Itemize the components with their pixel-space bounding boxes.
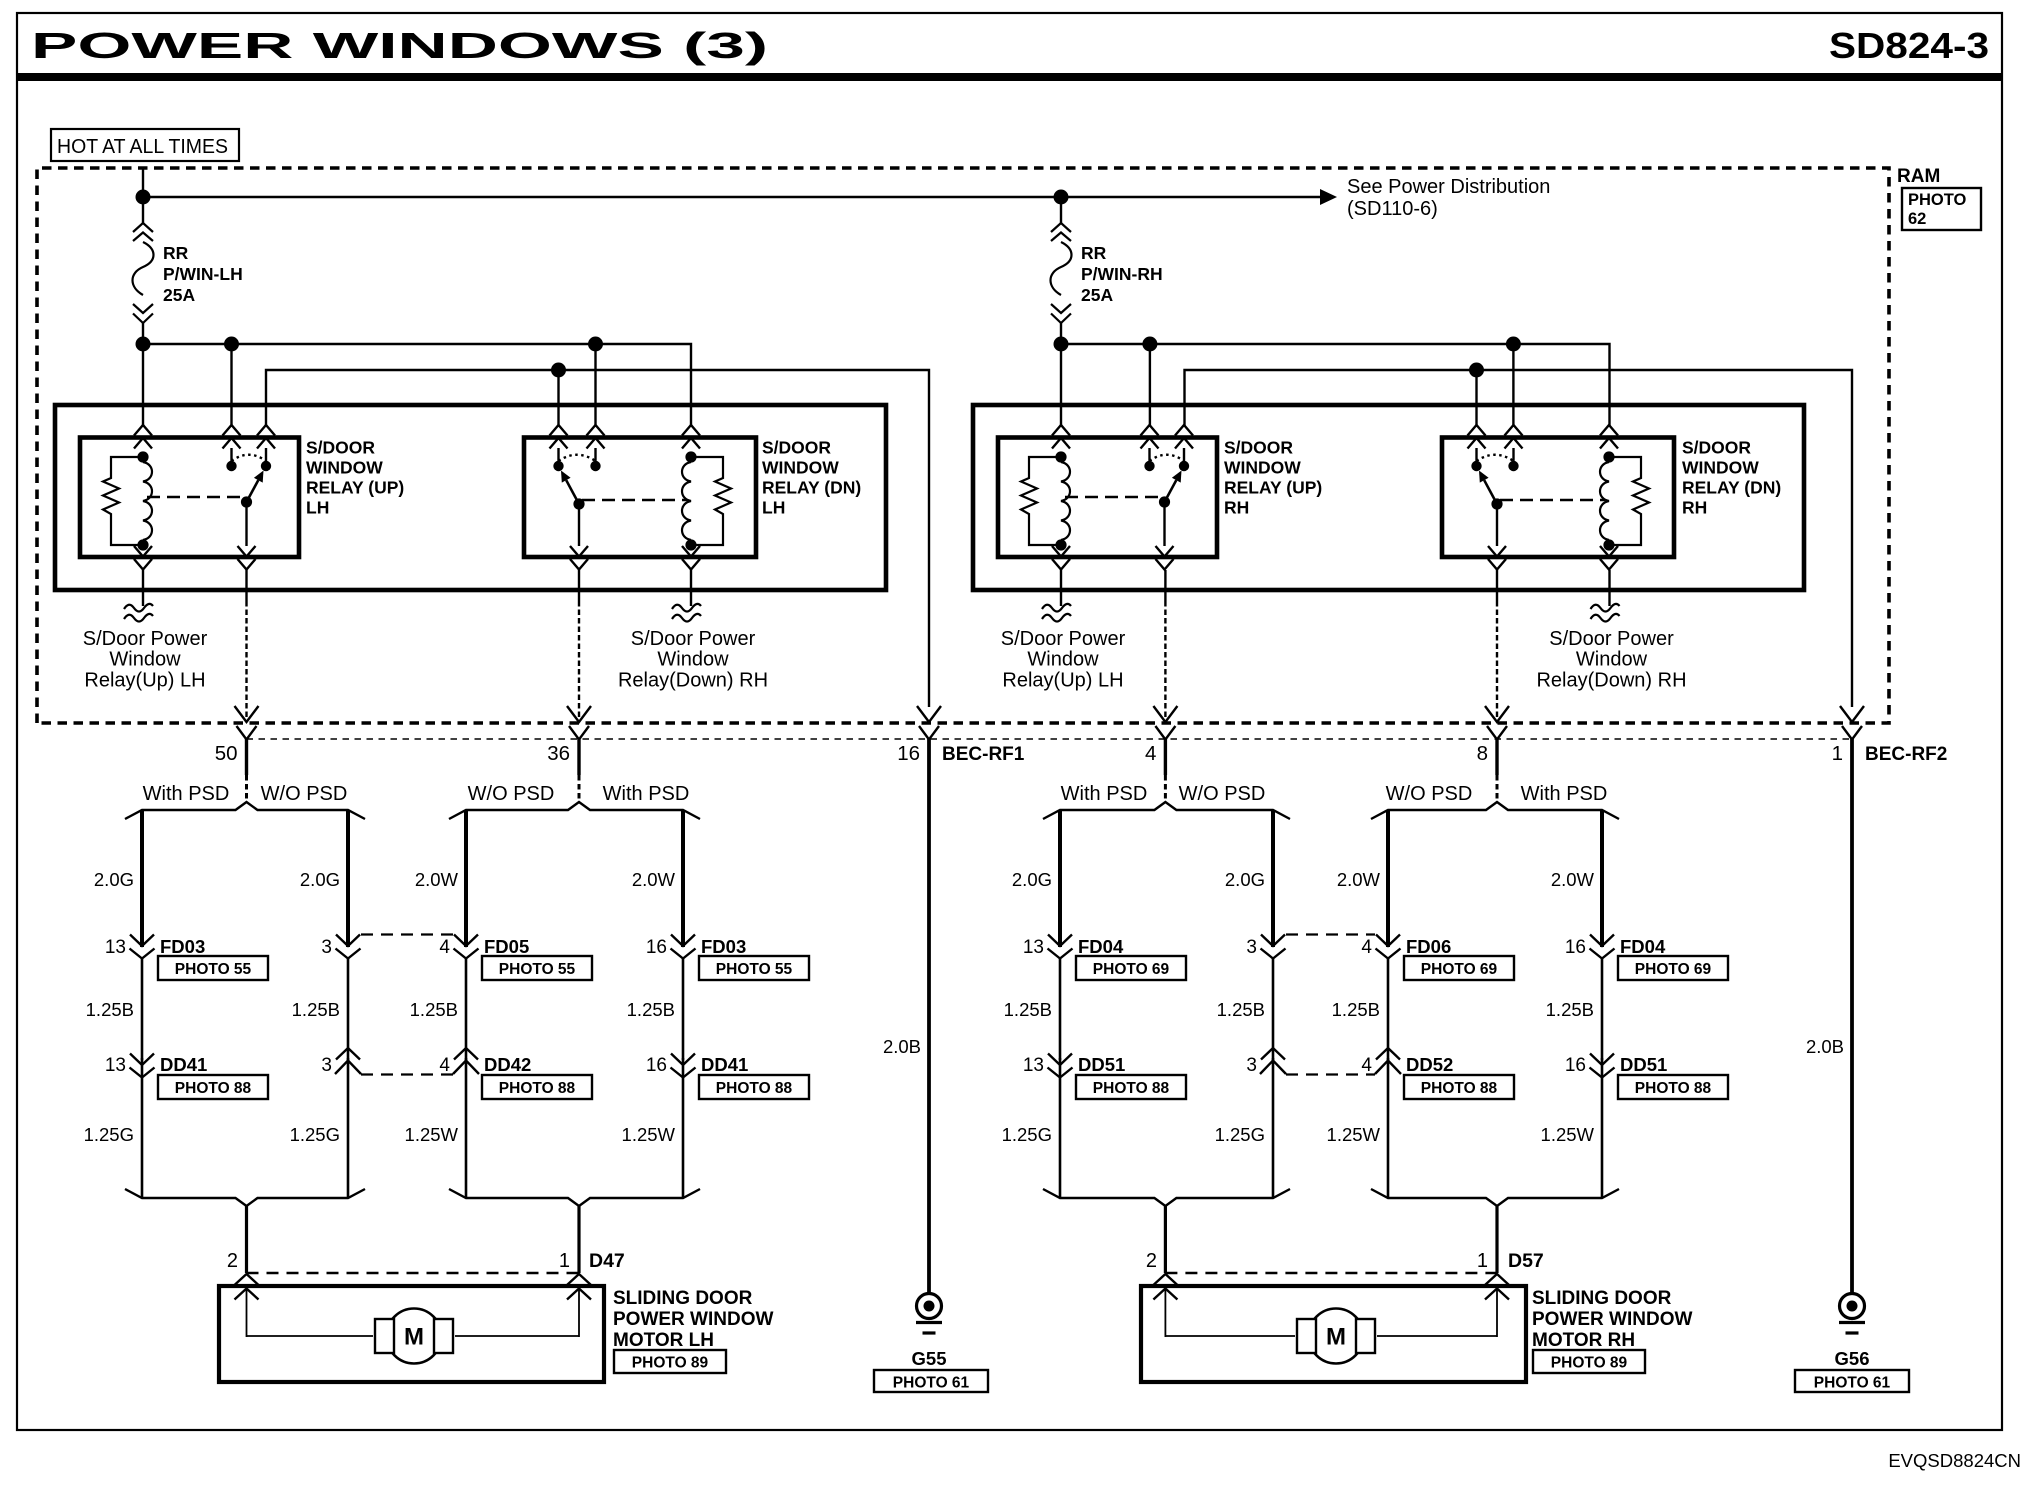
label box PHOTO 88 <box>1404 1075 1514 1099</box>
wire relay output to BEC x=246.5 <box>245 570 247 601</box>
svg-text:1.25B: 1.25B <box>410 999 458 1020</box>
connector BEC pin 8 <box>1485 706 1509 722</box>
label box PHOTO 55 <box>699 956 809 980</box>
wire stub contact 2 <box>265 448 267 462</box>
relay pin (contact 2) top <box>1175 425 1193 436</box>
motor box outline (RH) <box>1141 1286 1526 1382</box>
svg-text:62: 62 <box>1908 210 1926 228</box>
svg-text:1.25B: 1.25B <box>292 999 340 1020</box>
junction node LH lower bus <box>551 363 566 378</box>
relay pin (coil +) top <box>1600 425 1618 436</box>
switch pivot node <box>1159 496 1170 507</box>
wire branch x=348 middle (1.25B) <box>347 958 350 1060</box>
contact travel arc <box>1150 455 1185 461</box>
svg-text:Window: Window <box>109 649 181 671</box>
svg-text:3: 3 <box>321 1055 332 1076</box>
svg-text:2.0W: 2.0W <box>632 869 676 890</box>
svg-text:POWER WINDOW: POWER WINDOW <box>1532 1309 1692 1330</box>
connector BEC pin 4 <box>1153 706 1177 722</box>
svg-text:BEC-RF2: BEC-RF2 <box>1865 744 1947 765</box>
dashed link row2 <box>1286 1073 1375 1075</box>
wire option stem below BEC x=579 <box>577 739 580 775</box>
svg-text:HOT AT ALL TIMES: HOT AT ALL TIMES <box>57 136 228 158</box>
relay pin (coil +) top <box>1052 425 1070 436</box>
wire BEC-RF2 ground lead 2.0B <box>1850 739 1854 1295</box>
svg-text:RELAY (DN): RELAY (DN) <box>1682 478 1781 498</box>
relay pin (coil -) bottom <box>1600 546 1618 557</box>
wire battery feed into RAM box <box>142 168 144 199</box>
svg-text:D47: D47 <box>589 1250 625 1272</box>
svg-text:2: 2 <box>227 1250 238 1272</box>
wire RH UP coil drop <box>1060 344 1062 427</box>
svg-text:3: 3 <box>321 937 332 958</box>
svg-text:PHOTO 55: PHOTO 55 <box>716 961 793 978</box>
svg-text:13: 13 <box>105 1055 126 1076</box>
relay pin (coil +) top <box>682 425 700 436</box>
motor M circle (RH) <box>1309 1309 1364 1364</box>
svg-text:W/O PSD: W/O PSD <box>1179 783 1266 805</box>
motor pin 1 (RH) <box>1485 1274 1509 1285</box>
wire branch x=466 upper (2.0W) <box>464 810 468 947</box>
wire motor stem x=579 <box>577 1206 580 1273</box>
svg-text:S/DOOR: S/DOOR <box>1224 438 1293 458</box>
mechanical link (dashed) <box>1500 499 1605 501</box>
wire branch x=142 upper (2.0G) <box>140 810 144 947</box>
svg-text:4: 4 <box>1145 742 1156 765</box>
connector row1 pin 3 <box>336 935 360 947</box>
relay pin (contact 2) top <box>587 425 605 436</box>
harness join at x=246.5 <box>125 1189 365 1206</box>
svg-text:WINDOW: WINDOW <box>306 458 383 478</box>
wire branch x=1602 middle (1.25B) <box>1601 958 1604 1060</box>
relay coil <box>685 451 696 462</box>
wire stub contact 1 <box>1475 448 1477 462</box>
svg-text:PHOTO 89: PHOTO 89 <box>1551 1355 1628 1372</box>
relay pin (coil -) bottom <box>682 546 700 557</box>
relay box outline <box>1442 438 1674 558</box>
junction node RH lower bus <box>1469 363 1484 378</box>
motor pin 2 (RH) <box>1153 1274 1177 1285</box>
label box PHOTO 88 <box>699 1075 809 1099</box>
arrow to power distribution <box>1320 189 1337 205</box>
connector row2 pin 3 <box>347 1058 350 1198</box>
ground G56 symbol <box>1840 1294 1865 1319</box>
svg-text:PHOTO 69: PHOTO 69 <box>1421 961 1498 978</box>
svg-text:1.25G: 1.25G <box>1215 1124 1265 1145</box>
mechanical link (dashed) <box>147 496 244 498</box>
wire branch x=1388 upper (2.0W) <box>1386 810 1390 947</box>
wire branch x=1602 upper (2.0W) <box>1600 810 1604 947</box>
svg-text:16: 16 <box>646 1055 667 1076</box>
svg-text:1.25B: 1.25B <box>1004 999 1052 1020</box>
svg-text:2.0B: 2.0B <box>1806 1036 1844 1057</box>
wire coil output x=691 <box>690 570 692 606</box>
svg-text:M: M <box>404 1324 424 1351</box>
svg-text:(SD110-6): (SD110-6) <box>1347 198 1438 220</box>
svg-text:2.0G: 2.0G <box>1012 869 1052 890</box>
relay pin (contact 2) top <box>257 425 275 436</box>
wire bus RH lower (y=370) to BEC-RF2 <box>1185 370 1853 707</box>
svg-text:16: 16 <box>646 937 667 958</box>
wire branch x=683 middle (1.25B) <box>682 958 685 1060</box>
svg-text:FD04: FD04 <box>1620 936 1666 957</box>
relay coil <box>137 451 148 462</box>
wire stub contact 2 <box>1512 448 1514 462</box>
harness join at x=1497 <box>1371 1189 1619 1206</box>
junction node at fuse LH top <box>136 190 151 205</box>
wire RH DN contact2 drop <box>1512 344 1514 427</box>
wire RH DN contact1 drop <box>1475 370 1477 427</box>
svg-text:3: 3 <box>1246 937 1257 958</box>
contact node 1 <box>553 461 563 471</box>
switch pivot node <box>573 498 584 509</box>
contact node 1 <box>226 461 236 471</box>
motor pin 2 (LH) <box>235 1274 259 1285</box>
wire power bus to see-power-distribution <box>143 196 1322 198</box>
dashed link row1 <box>1286 933 1375 935</box>
svg-text:1.25B: 1.25B <box>1546 999 1594 1020</box>
svg-text:1.25W: 1.25W <box>1541 1124 1595 1145</box>
motor brushes (RH) <box>1297 1319 1316 1353</box>
wire stub contact 1 <box>557 448 559 462</box>
harness join at x=1165.4 <box>1043 1189 1290 1206</box>
contact node 2 <box>1179 461 1189 471</box>
svg-text:With PSD: With PSD <box>1521 783 1608 805</box>
relay box outline <box>80 438 299 558</box>
svg-text:1.25W: 1.25W <box>405 1124 459 1145</box>
svg-text:DD51: DD51 <box>1078 1054 1125 1075</box>
label box PHOTO 69 <box>1618 956 1728 980</box>
svg-text:MOTOR LH: MOTOR LH <box>613 1330 714 1351</box>
wire pivot to bottom pin <box>1163 502 1165 546</box>
wire motor stem x=246.5 <box>245 1206 248 1273</box>
switch blade <box>566 480 579 504</box>
svg-text:RELAY (UP): RELAY (UP) <box>306 478 404 498</box>
svg-text:13: 13 <box>1023 937 1044 958</box>
svg-text:SLIDING DOOR: SLIDING DOOR <box>613 1288 753 1309</box>
wire pivot to bottom pin <box>578 504 580 546</box>
wire branch x=1060 middle (1.25B) <box>1059 958 1062 1060</box>
svg-text:PHOTO 69: PHOTO 69 <box>1093 961 1170 978</box>
svg-text:G56: G56 <box>1835 1348 1870 1369</box>
wire branch x=348 upper (2.0G) <box>346 810 350 947</box>
wire coil output x=1061 <box>1060 570 1062 606</box>
relay resistor (parallel) <box>1021 457 1061 545</box>
svg-text:FD04: FD04 <box>1078 936 1124 957</box>
wire stub contact 1 <box>230 448 232 462</box>
svg-text:2.0B: 2.0B <box>883 1036 921 1057</box>
svg-text:Relay(Up) LH: Relay(Up) LH <box>84 669 205 691</box>
relay assembly outer box LH <box>55 405 886 590</box>
svg-text:DD41: DD41 <box>160 1054 207 1075</box>
label box PHOTO 88 <box>482 1075 592 1099</box>
relay pin (contact 1) top <box>1141 425 1159 436</box>
relay pin (contact 1) top <box>1468 425 1486 436</box>
svg-text:1: 1 <box>1477 1250 1488 1272</box>
svg-text:S/DOOR: S/DOOR <box>762 438 831 458</box>
svg-text:16: 16 <box>1565 937 1586 958</box>
svg-text:1.25B: 1.25B <box>1332 999 1380 1020</box>
motor M circle (LH) <box>387 1309 442 1364</box>
contact travel arc <box>559 455 596 461</box>
wire option stem below BEC x=246.5 <box>245 739 248 775</box>
svg-text:13: 13 <box>1023 1055 1044 1076</box>
svg-text:1.25W: 1.25W <box>1327 1124 1381 1145</box>
connector row2 pin 4 DD52 <box>1387 1058 1390 1198</box>
contact node 1 <box>1471 461 1481 471</box>
svg-text:1: 1 <box>559 1250 570 1272</box>
wire coil output x=143 <box>142 570 144 606</box>
svg-text:1.25W: 1.25W <box>622 1124 676 1145</box>
wire option stem below BEC x=1497 <box>1495 739 1498 775</box>
motor RH PHOTO 89 box <box>1533 1350 1645 1373</box>
switch pivot node <box>241 496 252 507</box>
wire stub contact 2 <box>594 448 596 462</box>
svg-text:P/WIN-LH: P/WIN-LH <box>163 264 243 284</box>
svg-text:With PSD: With PSD <box>603 783 690 805</box>
wire LH DN contact2 drop <box>594 344 596 427</box>
svg-text:16: 16 <box>1565 1055 1586 1076</box>
svg-text:1.25B: 1.25B <box>86 999 134 1020</box>
junction node RH bus at DN contact <box>1506 337 1521 352</box>
svg-text:Window: Window <box>657 649 729 671</box>
wire pivot to bottom pin <box>245 502 247 546</box>
svg-text:RR: RR <box>1081 243 1107 263</box>
svg-text:DD41: DD41 <box>701 1054 748 1075</box>
svg-text:1.25B: 1.25B <box>627 999 675 1020</box>
dashed link row2 <box>361 1073 453 1075</box>
label box PHOTO 69 <box>1076 956 1186 980</box>
svg-text:FD03: FD03 <box>701 936 746 957</box>
label box PHOTO 69 <box>1404 956 1514 980</box>
contact node 2 <box>261 461 271 471</box>
svg-text:50: 50 <box>215 742 238 765</box>
relay pin (coil -) bottom <box>1052 546 1070 557</box>
wire pivot to bottom pin <box>1496 504 1498 546</box>
svg-text:3: 3 <box>1246 1055 1257 1076</box>
harness split at x=1165.4 <box>1043 802 1290 819</box>
svg-text:POWER WINDOW: POWER WINDOW <box>613 1309 773 1330</box>
svg-text:25A: 25A <box>163 285 195 305</box>
svg-text:D57: D57 <box>1508 1250 1544 1272</box>
connector BEC pin 16 BEC-RF1 <box>917 706 941 722</box>
motor internal wires (RH) <box>1164 1288 1166 1337</box>
svg-text:PHOTO 88: PHOTO 88 <box>1093 1080 1170 1097</box>
svg-text:RR: RR <box>163 243 189 263</box>
fuse RR P/WIN-RH 25A <box>1060 197 1062 224</box>
svg-text:Relay(Down) RH: Relay(Down) RH <box>618 669 768 691</box>
svg-text:1: 1 <box>1832 742 1843 765</box>
svg-text:POWER WINDOWS (3): POWER WINDOWS (3) <box>31 25 768 66</box>
svg-text:RH: RH <box>1682 498 1707 518</box>
wire continuation symbol x=1061 <box>1042 604 1071 612</box>
svg-text:SLIDING DOOR: SLIDING DOOR <box>1532 1288 1672 1309</box>
relay coil <box>1055 451 1066 462</box>
connector BEC pin 50 <box>235 706 259 722</box>
relay box outline <box>524 438 756 558</box>
wire stub contact 1 <box>1148 448 1150 462</box>
svg-text:4: 4 <box>1361 937 1372 958</box>
svg-text:1.25G: 1.25G <box>1002 1124 1052 1145</box>
motor pin 1 (LH) <box>567 1274 591 1285</box>
junction node LH bus at DN contact <box>588 337 603 352</box>
svg-text:BEC-RF1: BEC-RF1 <box>942 744 1025 765</box>
relay pin (coil -) bottom <box>134 546 152 557</box>
svg-text:2.0W: 2.0W <box>1337 869 1381 890</box>
svg-text:PHOTO 89: PHOTO 89 <box>632 1355 709 1372</box>
motor internal wires (LH) <box>246 1288 248 1337</box>
relay pin (contact 1) top <box>550 425 568 436</box>
svg-text:S/DOOR: S/DOOR <box>1682 438 1751 458</box>
connector row2 pin 16 DD41 <box>682 1058 685 1198</box>
mechanical link (dashed) <box>582 499 687 501</box>
svg-text:1.25G: 1.25G <box>290 1124 340 1145</box>
HOT AT ALL TIMES box <box>51 129 239 161</box>
svg-text:See Power Distribution: See Power Distribution <box>1347 176 1550 198</box>
connector row1 pin 4 FD05 <box>454 935 478 947</box>
connector row2 pin 13 DD51 <box>1059 1058 1062 1198</box>
svg-text:P/WIN-RH: P/WIN-RH <box>1081 264 1163 284</box>
svg-text:Relay(Down) RH: Relay(Down) RH <box>1536 669 1686 691</box>
svg-text:S/DOOR: S/DOOR <box>306 438 375 458</box>
svg-text:13: 13 <box>105 937 126 958</box>
wire bus LH upper (y=344) <box>143 344 691 427</box>
svg-text:W/O PSD: W/O PSD <box>468 783 555 805</box>
harness split at x=579 <box>449 802 700 819</box>
svg-text:PHOTO 61: PHOTO 61 <box>893 1375 970 1392</box>
relay pin (common) bottom <box>1156 546 1174 557</box>
svg-text:DD51: DD51 <box>1620 1054 1667 1075</box>
svg-text:S/Door Power: S/Door Power <box>83 628 208 650</box>
svg-text:4: 4 <box>439 1055 450 1076</box>
wire relay output to BEC x=579 <box>578 570 580 601</box>
wire branch x=1273 upper (2.0G) <box>1271 810 1275 947</box>
svg-text:FD06: FD06 <box>1406 936 1451 957</box>
wire BEC-RF1 ground lead 2.0B <box>927 739 931 1295</box>
connector row2 pin 16 DD51 <box>1601 1058 1604 1198</box>
svg-text:PHOTO 55: PHOTO 55 <box>499 961 576 978</box>
wire branch x=1273 middle (1.25B) <box>1272 958 1275 1060</box>
svg-text:25A: 25A <box>1081 285 1113 305</box>
svg-text:2.0W: 2.0W <box>1551 869 1595 890</box>
fuse RR P/WIN-LH 25A <box>142 197 144 224</box>
svg-text:WINDOW: WINDOW <box>762 458 839 478</box>
junction node LH bus at UP contact <box>224 337 239 352</box>
connector D57 dashed line <box>1165 1272 1497 1274</box>
connector row2 pin 4 DD42 <box>465 1058 468 1198</box>
wire continuation symbol x=143 <box>124 604 153 612</box>
wire fuse RH to bus <box>1060 323 1062 346</box>
wire branch x=1388 middle (1.25B) <box>1387 958 1390 1060</box>
motor brushes (LH) <box>375 1319 394 1353</box>
title separator bar <box>17 73 2002 81</box>
ground G55 PHOTO 61 box <box>874 1370 988 1392</box>
svg-text:RELAY (DN): RELAY (DN) <box>762 478 861 498</box>
relay assembly outer box RH <box>973 405 1804 590</box>
wire RH UP contact1 drop <box>1149 344 1151 427</box>
wire relay output to BEC x=1497 <box>1496 570 1498 601</box>
relay pin (coil +) top <box>134 425 152 436</box>
motor box outline (LH) <box>219 1286 604 1382</box>
junction node RH bus at UP contact <box>1142 337 1157 352</box>
svg-text:LH: LH <box>306 498 329 518</box>
relay pin (contact 1) top <box>223 425 241 436</box>
svg-text:2: 2 <box>1146 1250 1157 1272</box>
relay pin (contact 2) top <box>1505 425 1523 436</box>
connector row1 pin 3 <box>1261 935 1285 947</box>
svg-text:36: 36 <box>547 742 570 765</box>
svg-text:With PSD: With PSD <box>143 783 230 805</box>
connector row1 pin 16 FD04 <box>1590 935 1614 947</box>
wire LH UP coil drop <box>142 344 144 427</box>
svg-text:WINDOW: WINDOW <box>1682 458 1759 478</box>
motor LH PHOTO 89 box <box>614 1350 726 1373</box>
svg-text:2.0G: 2.0G <box>94 869 134 890</box>
thin dashed connector row line <box>247 738 1853 740</box>
svg-text:DD42: DD42 <box>484 1054 531 1075</box>
contact node 2 <box>1508 461 1518 471</box>
label box PHOTO 88 <box>1618 1075 1728 1099</box>
svg-text:W/O PSD: W/O PSD <box>1386 783 1473 805</box>
wire option stem below BEC x=1165.4 <box>1164 739 1167 775</box>
svg-text:RELAY (UP): RELAY (UP) <box>1224 478 1322 498</box>
svg-text:8: 8 <box>1477 742 1488 765</box>
switch blade <box>1165 480 1177 502</box>
svg-text:1.25B: 1.25B <box>1217 999 1265 1020</box>
svg-text:PHOTO 88: PHOTO 88 <box>1635 1080 1712 1097</box>
ground G55 symbol <box>917 1294 942 1319</box>
svg-text:S/Door Power: S/Door Power <box>631 628 756 650</box>
svg-text:FD05: FD05 <box>484 936 529 957</box>
svg-text:RAM: RAM <box>1897 166 1940 187</box>
wire fuse LH to bus <box>142 323 144 346</box>
svg-text:PHOTO 88: PHOTO 88 <box>1421 1080 1498 1097</box>
wire branch x=142 middle (1.25B) <box>141 958 144 1060</box>
wire bus LH lower (y=370) to BEC-RF1 <box>266 370 929 707</box>
wire relay output to BEC x=1165.4 <box>1164 570 1166 601</box>
svg-text:S/Door Power: S/Door Power <box>1001 628 1126 650</box>
switch pivot node <box>1491 498 1502 509</box>
svg-text:DD52: DD52 <box>1406 1054 1453 1075</box>
svg-text:PHOTO 88: PHOTO 88 <box>499 1080 576 1097</box>
wire branch x=683 upper (2.0W) <box>681 810 685 947</box>
wire stub contact 2 <box>1183 448 1185 462</box>
svg-text:W/O PSD: W/O PSD <box>261 783 348 805</box>
svg-text:Relay(Up) LH: Relay(Up) LH <box>1002 669 1123 691</box>
wire LH DN contact1 drop <box>557 370 559 427</box>
mechanical link (dashed) <box>1065 496 1162 498</box>
svg-text:RH: RH <box>1224 498 1249 518</box>
svg-text:Window: Window <box>1027 649 1099 671</box>
connector row2 pin 3 <box>1272 1058 1275 1198</box>
label box PHOTO 88 <box>1076 1075 1186 1099</box>
svg-text:S/Door Power: S/Door Power <box>1549 628 1674 650</box>
svg-text:PHOTO 61: PHOTO 61 <box>1814 1375 1891 1392</box>
wire continuation symbol x=1609.5 <box>1591 604 1620 612</box>
RAM component dashed box <box>37 168 1889 723</box>
connector row1 pin 13 FD04 <box>1048 935 1072 947</box>
contact node 1 <box>1144 461 1154 471</box>
connector row1 pin 4 FD06 <box>1376 935 1400 947</box>
harness split at x=1497 <box>1371 802 1619 819</box>
svg-text:PHOTO 88: PHOTO 88 <box>175 1080 252 1097</box>
relay pin (common) bottom <box>238 546 256 557</box>
relay coil <box>1603 451 1614 462</box>
junction node RH bus at fuse <box>1054 337 1069 352</box>
svg-text:FD03: FD03 <box>160 936 205 957</box>
harness split at x=246.5 <box>125 802 365 819</box>
svg-text:1.25G: 1.25G <box>84 1124 134 1145</box>
